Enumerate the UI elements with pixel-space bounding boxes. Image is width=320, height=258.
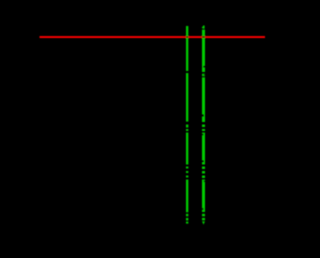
green vertical line (right) bbox=[202, 26, 205, 225]
red horizontal line bbox=[40, 36, 266, 38]
dark overlap blotch at right crossing bbox=[202, 36, 205, 38]
dark overlap blotch at left crossing bbox=[186, 36, 189, 38]
dark notches on right green line bbox=[202, 74, 205, 210]
green vertical line (left) bbox=[186, 26, 188, 224]
green arrow tip at bottom of right line bbox=[202, 221, 205, 224]
